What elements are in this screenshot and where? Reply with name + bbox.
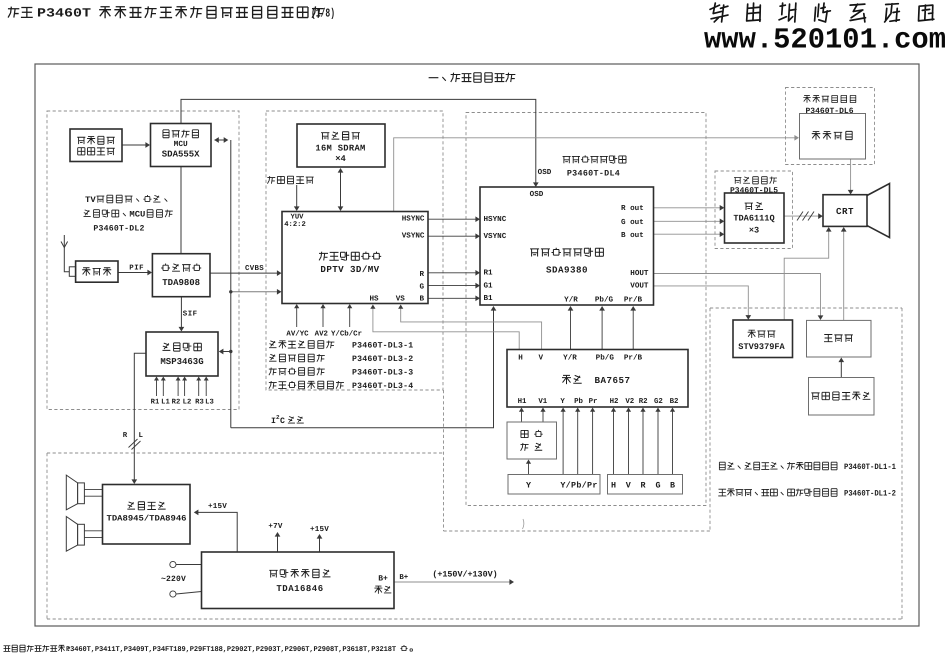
svg-text:B+: B+: [399, 574, 408, 582]
svg-text:16M SDRAM: 16M SDRAM: [315, 143, 365, 153]
svg-text:R: R: [419, 271, 424, 279]
svg-text:L1: L1: [161, 398, 170, 406]
svg-text:B+: B+: [378, 574, 388, 583]
svg-text:OSD: OSD: [530, 190, 544, 199]
svg-text:Y/R: Y/R: [563, 353, 577, 362]
svg-text:P3460T: P3460T: [37, 7, 92, 21]
svg-text:MSP3463G: MSP3463G: [160, 357, 203, 367]
svg-text:×3: ×3: [749, 225, 759, 235]
svg-text:VSYNC: VSYNC: [484, 232, 507, 241]
svg-text:www.520101.com: www.520101.com: [704, 24, 946, 57]
svg-text:BA7657: BA7657: [594, 375, 630, 386]
svg-text:R2: R2: [172, 398, 181, 406]
svg-text:Pb/G: Pb/G: [596, 353, 615, 362]
svg-text:B out: B out: [621, 231, 644, 240]
svg-text:Pr/B: Pr/B: [624, 295, 643, 304]
svg-text:OSD: OSD: [538, 168, 552, 177]
svg-text:PIF: PIF: [129, 265, 144, 273]
svg-text:+15V: +15V: [310, 526, 329, 534]
svg-text:VSYNC: VSYNC: [402, 232, 425, 241]
svg-text:HOUT: HOUT: [630, 269, 649, 278]
svg-text:B: B: [670, 480, 675, 490]
svg-text:H: H: [611, 480, 616, 490]
svg-text:CVBS: CVBS: [245, 265, 264, 273]
svg-text:P3460T-DL1-2: P3460T-DL1-2: [844, 489, 896, 498]
svg-text:P3460T-DL3-1: P3460T-DL3-1: [352, 341, 413, 350]
svg-text:R2: R2: [639, 398, 648, 406]
svg-text:R1: R1: [151, 398, 160, 406]
svg-text:G out: G out: [621, 218, 644, 227]
svg-text:+7V: +7V: [268, 523, 283, 531]
svg-text:TDA16846: TDA16846: [276, 584, 323, 594]
svg-text:V: V: [539, 354, 544, 362]
svg-text:L3: L3: [205, 398, 214, 406]
svg-text:Y/Pb/Pr: Y/Pb/Pr: [560, 480, 597, 490]
svg-text:G: G: [655, 480, 660, 490]
svg-text:HSYNC: HSYNC: [484, 215, 507, 224]
svg-text:VS: VS: [396, 294, 406, 303]
svg-text:H2: H2: [610, 398, 619, 406]
svg-text:STV9379FA: STV9379FA: [738, 342, 785, 352]
svg-text:Pb/G: Pb/G: [595, 295, 614, 304]
svg-text:SIF: SIF: [183, 311, 198, 319]
svg-text:220V: 220V: [166, 575, 186, 584]
svg-text:R1: R1: [484, 270, 494, 278]
svg-text:L: L: [138, 432, 143, 440]
svg-text:SDA9380: SDA9380: [546, 264, 588, 275]
svg-text:P3460T-DL1-1: P3460T-DL1-1: [844, 463, 896, 472]
svg-text:C: C: [280, 417, 285, 426]
svg-text:MCU: MCU: [174, 140, 188, 149]
svg-text:HSYNC: HSYNC: [402, 214, 425, 223]
svg-text:B2: B2: [670, 398, 679, 406]
svg-text:Y: Y: [560, 398, 565, 406]
svg-text:(1/8): (1/8): [311, 7, 335, 21]
svg-text:R: R: [123, 432, 128, 440]
svg-text:DPTV 3D/MV: DPTV 3D/MV: [320, 264, 379, 275]
svg-text:Pr: Pr: [589, 398, 598, 406]
svg-text:G1: G1: [484, 282, 494, 291]
svg-text:+15V: +15V: [208, 503, 227, 511]
svg-text:V1: V1: [538, 398, 547, 406]
svg-text:MCU: MCU: [129, 209, 145, 219]
svg-text:TDA9808: TDA9808: [162, 278, 200, 288]
svg-text:B1: B1: [484, 295, 494, 303]
svg-text:V2: V2: [625, 398, 634, 406]
svg-text:HS: HS: [369, 294, 379, 303]
svg-text:TV: TV: [85, 195, 97, 205]
svg-text:P3460T-DL4: P3460T-DL4: [567, 168, 620, 178]
svg-text:L2: L2: [183, 398, 192, 406]
svg-text:4:2:2: 4:2:2: [284, 221, 306, 229]
svg-text:H: H: [518, 354, 523, 362]
svg-text:Y/R: Y/R: [564, 295, 578, 304]
svg-text:B: B: [419, 295, 424, 303]
svg-text:CRT: CRT: [836, 206, 854, 217]
svg-text:Y/Cb/Cr: Y/Cb/Cr: [331, 329, 362, 338]
svg-text:SDA555X: SDA555X: [162, 150, 200, 160]
svg-text:(+150V/+130V): (+150V/+130V): [432, 570, 497, 580]
svg-text:AV2: AV2: [315, 330, 328, 338]
svg-text:G: G: [419, 282, 424, 291]
svg-text:TDA6111Q: TDA6111Q: [733, 213, 774, 223]
svg-text:×4: ×4: [335, 154, 346, 164]
svg-text:H1: H1: [518, 398, 527, 406]
svg-text:Pr/B: Pr/B: [624, 353, 643, 362]
svg-text:TDA8945/TDA8946: TDA8945/TDA8946: [107, 514, 187, 523]
svg-text:P3460T-DL6: P3460T-DL6: [805, 107, 853, 116]
svg-text:AV/YC: AV/YC: [286, 329, 309, 338]
svg-text:P3460T-DL3-2: P3460T-DL3-2: [352, 355, 413, 364]
svg-text:R3: R3: [195, 398, 204, 406]
svg-text:P3460T-DL3-3: P3460T-DL3-3: [352, 368, 413, 377]
svg-text:P3460T,P3411T,P3409T,P34FT189,: P3460T,P3411T,P3409T,P34FT189,P29FT188,P…: [66, 646, 397, 654]
svg-text:P3460T-DL5: P3460T-DL5: [730, 186, 778, 195]
svg-text:R out: R out: [621, 204, 644, 213]
svg-text:Pb: Pb: [574, 397, 583, 406]
svg-text:P3460T-DL2: P3460T-DL2: [93, 224, 144, 233]
svg-text:G2: G2: [654, 398, 663, 406]
svg-text:P3460T-DL3-4: P3460T-DL3-4: [352, 382, 413, 391]
svg-text:VOUT: VOUT: [630, 281, 649, 290]
